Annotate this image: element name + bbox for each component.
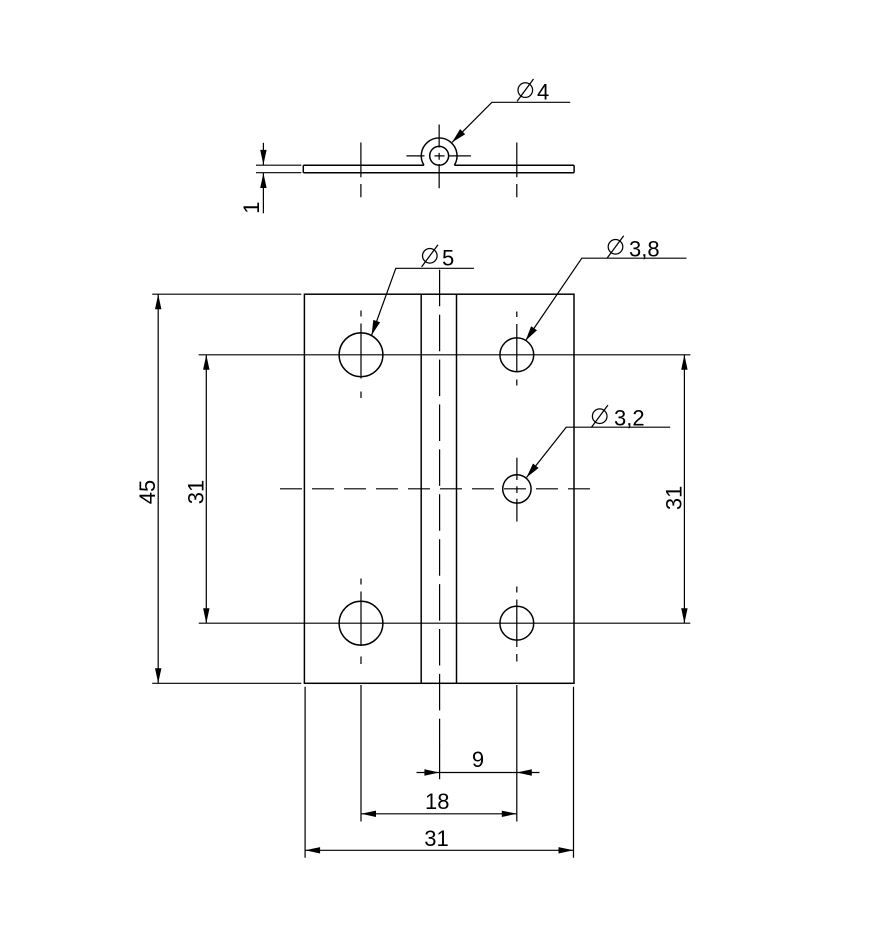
- extension line left plate edge: [304, 687, 306, 858]
- arrow left 31 bottom: [305, 847, 320, 853]
- svg-text:45: 45: [135, 480, 160, 504]
- leader arrowhead Ø4: [452, 129, 465, 142]
- dimension 31 (left inner): [205, 355, 207, 623]
- arrow up 31 right: [681, 355, 687, 370]
- leader Ø4: [452, 102, 570, 142]
- knuckle left edge line: [420, 294, 422, 683]
- hole bottom-right Ø3.8: [500, 606, 534, 640]
- arrow right 18: [502, 811, 517, 817]
- dimension 45 (left outer): [152, 294, 301, 683]
- arrow right 31 bottom: [559, 847, 574, 853]
- crosshair middle-right hole: [516, 458, 518, 522]
- arrow up 31 left: [203, 355, 209, 370]
- plate outline: [304, 294, 574, 683]
- diameter symbol for Ø5: [422, 245, 438, 267]
- extension line right column: [516, 685, 518, 822]
- svg-text:3,8: 3,8: [629, 237, 660, 262]
- crosshair top-left hole: [360, 311, 362, 399]
- dimension 31 (right): [683, 355, 685, 623]
- plate profile outline: [303, 165, 574, 173]
- extension line left column: [360, 685, 362, 822]
- leader Ø3,8: [526, 258, 687, 340]
- crosshair bottom-right hole: [516, 587, 518, 662]
- vertical center line solid extension through 9-dim: [439, 746, 441, 780]
- svg-text:1: 1: [239, 201, 264, 213]
- leader arrowhead Ø3,8: [526, 326, 537, 340]
- barrel horizontal center line: [406, 155, 471, 157]
- svg-text:31: 31: [424, 826, 448, 851]
- leader arrowhead Ø5: [372, 320, 381, 335]
- hole top-left Ø5: [339, 333, 383, 377]
- arrow left-pointing at right hole line (9): [517, 769, 532, 775]
- svg-text:4: 4: [537, 79, 549, 104]
- svg-text:31: 31: [183, 480, 208, 504]
- crosshair top-right hole: [516, 312, 518, 386]
- hole middle-right Ø3.2: [503, 475, 531, 503]
- vertical center line of plate: [439, 270, 441, 746]
- svg-text:5: 5: [442, 246, 454, 271]
- hole top-right Ø3.8: [500, 338, 534, 372]
- arrow down at plate top: [260, 150, 266, 165]
- hole bottom-left Ø5: [339, 601, 383, 645]
- horizontal middle center line: [280, 488, 595, 490]
- extension line bottom: [256, 172, 301, 174]
- diameter symbol for Ø3,8: [607, 236, 623, 258]
- arrow up 45: [155, 294, 161, 309]
- arrow down 31 right: [681, 608, 687, 623]
- arrow down 45: [155, 668, 161, 683]
- crosshair bottom-left hole: [360, 579, 362, 665]
- dim line above: [262, 143, 264, 165]
- dimension 1 (plate thickness): [256, 143, 301, 214]
- svg-text:3,2: 3,2: [614, 406, 645, 431]
- leader Ø5: [372, 268, 474, 335]
- extension line right plate edge: [573, 687, 575, 858]
- leader Ø3,2: [527, 427, 671, 477]
- diameter symbol for Ø3,2: [592, 405, 608, 427]
- dim line below: [262, 173, 264, 213]
- dimension 31 (bottom): [305, 849, 573, 851]
- barrel vertical center line: [438, 125, 440, 189]
- left hole column center line (profile): [360, 143, 362, 198]
- arrow right-pointing at center line (9): [424, 769, 439, 775]
- arrow left 18: [361, 811, 376, 817]
- diameter symbol for Ø4: [517, 79, 533, 101]
- svg-text:9: 9: [472, 747, 484, 772]
- knuckle right edge line: [456, 294, 458, 683]
- arrow down 31 left: [203, 608, 209, 623]
- leader arrowhead Ø3,2: [527, 464, 539, 478]
- svg-text:18: 18: [425, 789, 449, 814]
- right hole column center line (profile): [516, 143, 518, 198]
- dimension 9 (bottom, center to right hole): [417, 772, 540, 774]
- barrel outer arc (knuckle, Ø4): [421, 138, 457, 165]
- arrow up at plate bottom: [260, 173, 266, 188]
- top hole row line: [199, 354, 691, 356]
- barrel pin hole inner circle: [430, 146, 449, 165]
- svg-text:31: 31: [662, 486, 687, 510]
- dimension 18: [361, 813, 517, 815]
- extension line top: [256, 164, 301, 166]
- bottom hole row line: [199, 622, 691, 624]
